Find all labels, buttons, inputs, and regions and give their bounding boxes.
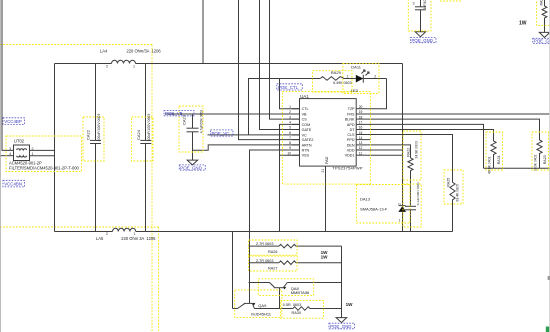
wire vertical to GATE <box>260 0 300 130</box>
selection box top cap <box>408 0 431 31</box>
svg-text:20: 20 <box>359 105 363 109</box>
IC UA1 TPS23754PWP <box>300 99 357 167</box>
node POE_CTL <box>277 84 303 90</box>
LED DA11 <box>356 75 364 83</box>
selection box RA25 <box>444 170 463 204</box>
resistor RA21 <box>542 6 547 32</box>
capacitor CA24 column <box>145 64 147 141</box>
svg-text:POE_VC: POE_VC <box>212 131 230 136</box>
ground POE_GND bottom <box>336 318 347 323</box>
svg-text:RA31: RA31 <box>497 155 501 164</box>
wire bottom resistor bus <box>484 167 550 169</box>
svg-text:4: 4 <box>9 152 11 156</box>
artifact gray tick right edge <box>548 276 550 280</box>
transistor QA8 MMBTA56 <box>274 287 285 289</box>
resistor RA22 <box>408 158 413 206</box>
wire CLS to RA25 <box>367 135 452 183</box>
wire row H middle <box>254 308 293 310</box>
svg-text:16: 16 <box>359 126 363 130</box>
artifact green mark bottom right <box>546 327 549 332</box>
selection box QA9 <box>235 290 282 318</box>
svg-text:2: 2 <box>289 110 291 114</box>
svg-text:10: 10 <box>287 151 291 155</box>
svg-text:0.1uF/100V 0603: 0.1uF/100V 0603 <box>416 182 420 205</box>
selection box RA31 <box>486 132 503 170</box>
node POE_GND at CA23 <box>179 165 205 170</box>
selection box RA26 <box>249 240 298 255</box>
resistor RA23 <box>537 140 542 168</box>
svg-text:220 Ohm/3A 1206: 220 Ohm/3A 1206 <box>127 49 162 54</box>
resistor RA30 <box>293 307 342 311</box>
svg-text:0.5R 0603: 0.5R 0603 <box>283 303 302 307</box>
svg-text:6: 6 <box>289 131 291 135</box>
node POE_GND top right <box>533 38 550 43</box>
wire CA23 column upper <box>192 114 194 128</box>
capacitor top right <box>420 0 422 7</box>
svg-text:POE_GND: POE_GND <box>534 39 550 44</box>
capacitor CA23 <box>187 127 199 129</box>
wire vertical to GATE2 <box>239 0 300 140</box>
IC pin numbers right <box>359 105 363 155</box>
svg-text:14: 14 <box>359 136 363 140</box>
wire vertical from top to rail <box>202 0 204 64</box>
svg-text:2: 2 <box>374 75 376 79</box>
selection box top right resistor <box>537 0 550 26</box>
wire row RA26 <box>249 245 279 247</box>
svg-text:SMAJ58A-13-F: SMAJ58A-13-F <box>360 206 388 211</box>
wire BLNK to RA23 <box>367 119 539 140</box>
svg-text:24.9K 0603: 24.9K 0603 <box>414 141 418 158</box>
wire VDD1 row <box>367 154 402 156</box>
svg-text:FILTER/SMD/ACM4520-901-2P-T-00: FILTER/SMD/ACM4520-901-2P-T-000 <box>9 165 79 170</box>
svg-text:49.9K 0402: 49.9K 0402 <box>487 157 491 174</box>
svg-text:1: 1 <box>399 219 401 223</box>
selection rect edge A top <box>0 44 152 46</box>
svg-text:VB: VB <box>302 112 307 116</box>
svg-text:6.49K 0603: 6.49K 0603 <box>333 81 351 85</box>
svg-text:2: 2 <box>398 203 402 205</box>
svg-text:POE_VB: POE_VB <box>165 111 183 116</box>
svg-text:4.7uF/50V 0603: 4.7uF/50V 0603 <box>200 110 204 134</box>
svg-text:1W: 1W <box>519 20 527 26</box>
svg-text:GATE: GATE <box>302 128 312 132</box>
wire row RA27 <box>249 262 279 264</box>
svg-text:15: 15 <box>359 131 363 135</box>
svg-text:1: 1 <box>133 65 135 69</box>
IC UA1 left pin stubs <box>292 109 300 156</box>
svg-text:MMBTA56: MMBTA56 <box>291 290 310 295</box>
capacitor CA22 column <box>95 64 97 141</box>
svg-text:UA1: UA1 <box>300 94 309 99</box>
svg-text:VCC4BN: VCC4BN <box>4 182 22 187</box>
wire bottom rail left segment <box>55 231 113 233</box>
wire FRS row <box>367 113 550 115</box>
wire bottom rail right segment <box>136 231 453 233</box>
svg-text:GATE2: GATE2 <box>302 138 314 142</box>
svg-text:DA13: DA13 <box>360 196 371 201</box>
svg-text:PAD: PAD <box>325 156 329 164</box>
svg-text:RA22: RA22 <box>407 148 411 157</box>
resistor RA29 <box>320 77 356 81</box>
wire row QA8 left <box>249 282 270 284</box>
wire VSS row <box>280 154 300 156</box>
inductor LA4 <box>112 60 136 63</box>
wire COM/VSS vertical to rail <box>280 124 300 231</box>
svg-text:VC: VC <box>302 133 307 137</box>
wire RTN riser to transistor block <box>250 150 300 303</box>
svg-text:RA27: RA27 <box>268 266 278 270</box>
IC pin names right <box>345 107 356 158</box>
selection fragment top right <box>440 0 461 2</box>
svg-text:63.4K 0805: 63.4K 0805 <box>456 184 460 201</box>
svg-text:2: 2 <box>106 232 108 236</box>
wire loop left vertical <box>54 64 56 232</box>
node POE_VB <box>164 111 194 117</box>
selection box capacitor DA13 area <box>403 184 421 227</box>
ground CA23 POE_GND <box>187 160 198 165</box>
transistor QA9 MJD45H11 <box>244 302 254 304</box>
svg-text:RA30: RA30 <box>292 311 302 315</box>
svg-text:5: 5 <box>289 126 291 130</box>
svg-text:1: 1 <box>289 105 291 109</box>
node POE_GND top cap <box>411 38 437 43</box>
svg-text:2: 2 <box>32 147 34 151</box>
svg-text:COM: COM <box>302 123 311 127</box>
resistor RA27 <box>279 261 342 265</box>
wire POE_VC row to pin 6 <box>208 134 300 136</box>
resistor RA25 <box>450 182 455 231</box>
svg-text:LA5: LA5 <box>96 236 104 241</box>
svg-text:13: 13 <box>359 141 363 145</box>
IC UA1 pad pin 21 <box>325 166 327 231</box>
selection box RA22 <box>403 131 421 180</box>
wire row H left <box>233 308 238 310</box>
svg-text:9: 9 <box>289 146 291 150</box>
selection box UT02 <box>6 136 82 172</box>
wire CA23 column lower <box>192 132 194 160</box>
svg-text:3: 3 <box>9 147 11 151</box>
screenshot left border edge <box>0 0 1 332</box>
svg-text:RA25: RA25 <box>447 178 451 187</box>
svg-text:CA22: CA22 <box>86 129 91 140</box>
svg-text:19: 19 <box>359 110 363 114</box>
wire V1 from rail to QA9 row <box>232 232 234 309</box>
wire right loop vertical <box>402 64 404 206</box>
svg-text:LA4: LA4 <box>100 49 108 54</box>
node VCC4BP <box>3 118 25 125</box>
svg-text:QA9: QA9 <box>258 303 267 308</box>
wire APD down <box>367 124 483 168</box>
svg-text:RA21: RA21 <box>540 0 544 5</box>
selection box QA8 <box>258 279 313 296</box>
svg-text:1W: 1W <box>346 302 354 307</box>
svg-text:220 Ohm 3A 1206: 220 Ohm 3A 1206 <box>121 236 156 241</box>
svg-text:1: 1 <box>134 232 136 236</box>
wire top rail segment right of LA4 <box>136 63 403 65</box>
svg-text:BLNK: BLNK <box>345 118 355 122</box>
IC pin names left <box>302 107 314 158</box>
svg-text:11: 11 <box>359 151 363 155</box>
inductor LA5 <box>113 228 136 231</box>
svg-text:2.7R 0603: 2.7R 0603 <box>256 242 274 246</box>
svg-text:RA23: RA23 <box>543 155 547 164</box>
diode DA13 TVS <box>399 205 406 207</box>
selection box CA23 <box>179 106 203 152</box>
svg-text:POE_GND: POE_GND <box>180 165 201 170</box>
wire DT to RA31 <box>367 130 493 142</box>
svg-text:ARTN: ARTN <box>302 143 312 147</box>
wire vertical to CS <box>270 0 300 119</box>
ground POE_GND top right <box>539 32 550 37</box>
svg-text:3: 3 <box>413 1 415 5</box>
svg-text:18: 18 <box>359 115 363 119</box>
svg-text:POE_GND: POE_GND <box>412 38 433 43</box>
selection box UA1 <box>282 91 370 184</box>
svg-text:DA11: DA11 <box>351 65 361 70</box>
svg-text:PPD: PPD <box>347 138 355 142</box>
svg-text:CS: CS <box>302 118 308 122</box>
svg-text:2: 2 <box>106 65 108 69</box>
svg-text:CLS: CLS <box>347 133 355 137</box>
filter UT02 <box>14 145 30 161</box>
svg-text:RA29: RA29 <box>331 70 342 75</box>
wire row QA8 right <box>287 282 341 284</box>
svg-text:100uF/100V 0603: 100uF/100V 0603 <box>97 114 101 142</box>
svg-text:DT: DT <box>350 128 356 132</box>
svg-text:APD: APD <box>347 123 355 127</box>
svg-text:1uF/100V: 1uF/100V <box>423 0 427 10</box>
selection box DA13 <box>356 185 410 224</box>
selection rect edge B right <box>158 227 160 332</box>
svg-text:7: 7 <box>289 136 291 140</box>
svg-text:8: 8 <box>289 141 291 145</box>
svg-text:VCC4BP: VCC4BP <box>4 119 22 124</box>
wire UT02 pin2 right <box>30 149 55 151</box>
node POE_VC <box>211 130 234 136</box>
svg-text:100uF/100V 0603: 100uF/100V 0603 <box>147 114 151 142</box>
ground POE_GND top cap <box>415 32 426 37</box>
wire top rail segment left of LA4 <box>55 63 112 65</box>
wire T2P to LED loop <box>367 79 386 109</box>
svg-text:CA24: CA24 <box>136 129 141 140</box>
IC UA1 right pin stubs <box>357 109 371 156</box>
wire DEN to RA22 <box>367 145 410 158</box>
svg-text:1: 1 <box>347 75 349 79</box>
wire CTL drop to pin 1 <box>280 79 300 109</box>
wire left border vertical VCC4BP net <box>2 0 14 150</box>
wire RA21 column top <box>544 0 546 6</box>
wire V3 down to ground <box>341 246 343 318</box>
wire UT02 pin1 right <box>30 155 55 157</box>
svg-text:RTN: RTN <box>302 148 310 152</box>
selection box DA11 <box>343 63 379 93</box>
svg-text:UT02: UT02 <box>14 138 25 143</box>
node POE_GND bottom <box>329 323 355 329</box>
selection rect edge A right <box>151 45 153 332</box>
svg-text:FRS: FRS <box>347 112 355 116</box>
LED arrows <box>362 70 366 74</box>
screenshot right border edge <box>549 0 550 332</box>
svg-text:MJD45H11: MJD45H11 <box>251 312 271 317</box>
selection rect edge B top <box>0 226 159 228</box>
resistor RA26 <box>279 244 342 248</box>
svg-text:POE_GND: POE_GND <box>330 324 351 329</box>
svg-text:3: 3 <box>289 115 291 119</box>
svg-text:4: 4 <box>289 121 291 125</box>
svg-text:DEN: DEN <box>347 143 355 147</box>
svg-text:12: 12 <box>359 146 363 150</box>
svg-text:CTL: CTL <box>302 107 309 111</box>
svg-text:VSS: VSS <box>302 154 310 158</box>
svg-text:T2P: T2P <box>348 107 355 111</box>
svg-text:100K 0402: 100K 0402 <box>533 154 537 171</box>
IC pin numbers left <box>287 105 291 155</box>
selection box RA30 <box>280 300 323 318</box>
svg-text:21: 21 <box>321 169 325 173</box>
svg-text:TPS23754PWP: TPS23754PWP <box>332 165 363 170</box>
svg-text:POE_CTL: POE_CTL <box>278 85 299 90</box>
svg-text:1W: 1W <box>321 254 329 259</box>
selection box RA29 <box>313 71 353 92</box>
node VCC4BN <box>3 180 25 187</box>
wire UT02 pin4 to edge <box>0 155 14 157</box>
selection box CA22 <box>83 117 104 161</box>
wire POE_CTL horizontal <box>249 79 321 135</box>
selection box CA24 <box>132 117 154 161</box>
wire VDD row <box>367 149 402 151</box>
svg-text:LED: LED <box>351 89 359 93</box>
svg-text:VDD1: VDD1 <box>345 154 355 158</box>
capacitor on RA22 column <box>405 205 416 207</box>
selection box RA27 <box>249 256 298 271</box>
wire POE_VB row to pin 2 <box>165 113 300 115</box>
svg-text:VDD: VDD <box>347 148 355 152</box>
svg-text:2.7R 0603: 2.7R 0603 <box>256 259 274 263</box>
wire ARTN step to ground node <box>193 145 300 150</box>
svg-text:RA26: RA26 <box>268 250 278 254</box>
selection box RA23 <box>532 132 549 170</box>
svg-text:1: 1 <box>32 152 34 156</box>
svg-text:17: 17 <box>359 121 363 125</box>
resistor RA31 <box>491 141 496 168</box>
